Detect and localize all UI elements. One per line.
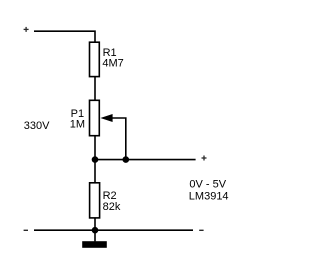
- terminal bottom left xyxy=(24,229,28,231)
resistor R1 xyxy=(90,42,100,76)
wire: node to output + xyxy=(95,159,196,161)
svg-text:0V - 5V: 0V - 5V xyxy=(189,178,226,190)
svg-text:1M: 1M xyxy=(70,119,85,131)
potentiometer P1 body xyxy=(90,100,100,135)
wire: bottom rail xyxy=(34,229,193,231)
svg-text:4M7: 4M7 xyxy=(102,57,123,69)
- terminal bottom right xyxy=(199,229,203,231)
svg-text:330V: 330V xyxy=(24,120,50,132)
resistor R2 xyxy=(90,183,100,218)
junction node at ground xyxy=(92,227,99,234)
ground xyxy=(82,241,107,248)
wire: R1 to P1 xyxy=(94,77,96,101)
wire: P1 bottom through node to R2 xyxy=(94,136,96,183)
junction node at P1/R2 xyxy=(92,156,99,163)
wire: top rail from + to R1 xyxy=(34,31,95,42)
wire: R2 to bottom rail xyxy=(94,218,96,230)
+ terminal top left xyxy=(24,27,29,32)
wire: stub to ground xyxy=(94,230,96,241)
P1 wiper arrow xyxy=(100,114,112,122)
wire: wiper to right then down to node xyxy=(112,118,126,160)
svg-text:LM3914: LM3914 xyxy=(189,190,229,202)
+ terminal output right xyxy=(202,156,207,161)
svg-text:82k: 82k xyxy=(103,201,121,213)
junction node at wiper connection xyxy=(123,156,130,163)
